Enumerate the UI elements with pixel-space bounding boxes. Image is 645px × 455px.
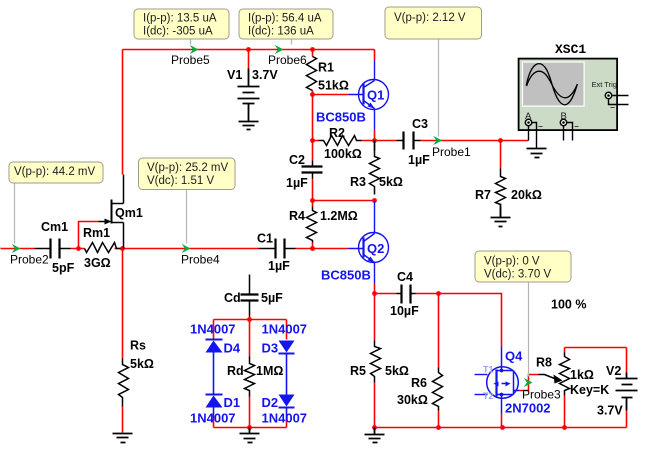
resistor Rd bbox=[245, 357, 255, 397]
node junction R7 top bbox=[498, 138, 503, 143]
wire Cd to diode rect bbox=[249, 317, 251, 320]
annotation box Probe5 current bbox=[134, 9, 229, 39]
svg-text:C2: C2 bbox=[289, 153, 305, 167]
svg-text:V1: V1 bbox=[227, 68, 242, 82]
svg-text:V(p-p): 44.2 mV: V(p-p): 44.2 mV bbox=[14, 166, 95, 178]
annotation stem Probe2 bbox=[14, 183, 16, 244]
capacitor Cd bbox=[241, 275, 259, 317]
svg-text:V2: V2 bbox=[606, 364, 621, 378]
svg-text:V(dc): 3.70 V: V(dc): 3.70 V bbox=[484, 269, 551, 281]
ground R7 bbox=[491, 207, 511, 227]
wire C3 row bbox=[375, 140, 529, 142]
node junction R4 top bbox=[310, 198, 315, 203]
ground scope A bbox=[527, 149, 547, 158]
capacitor C3 bbox=[397, 132, 421, 150]
svg-text:Probe5: Probe5 bbox=[171, 53, 210, 67]
label D1 model bbox=[190, 411, 236, 426]
label D4 model bbox=[190, 322, 236, 337]
node junction C1-Q2 base bbox=[310, 246, 315, 251]
svg-text:Probe2: Probe2 bbox=[10, 253, 49, 267]
probe Probe5 bbox=[171, 45, 210, 67]
probe Probe4 bbox=[181, 244, 220, 267]
svg-text:V(p-p): 0 V: V(p-p): 0 V bbox=[484, 256, 540, 268]
node junction Rm1-Qm1 bbox=[120, 246, 125, 251]
svg-text:C1: C1 bbox=[257, 232, 273, 246]
potentiometer R8 wiper arrow bbox=[539, 375, 563, 384]
wire R5 column bbox=[374, 294, 376, 428]
wire scope B stubs bbox=[564, 123, 573, 141]
label Rs value bbox=[130, 339, 154, 372]
svg-text:1N4007: 1N4007 bbox=[262, 322, 308, 337]
wire R7 column bbox=[500, 141, 502, 217]
wire R1 column bbox=[312, 50, 314, 161]
resistor R3 bbox=[370, 141, 380, 195]
capacitor C1 bbox=[259, 239, 296, 259]
svg-text:Q4: Q4 bbox=[505, 349, 523, 364]
svg-text:Q2: Q2 bbox=[367, 241, 384, 256]
resistor Rs bbox=[119, 359, 129, 407]
battery V1 bbox=[238, 69, 260, 122]
resistor R2 bbox=[319, 136, 362, 146]
node junction Q1 base bbox=[310, 92, 315, 97]
svg-text:Cm1: Cm1 bbox=[41, 220, 68, 234]
svg-text:V(p-p): 2.12 V: V(p-p): 2.12 V bbox=[394, 12, 466, 24]
annotation box Probe2 voltage bbox=[9, 162, 103, 183]
node junction R6 bottom bbox=[436, 425, 441, 430]
annotation box Probe1 voltage bbox=[385, 7, 482, 39]
svg-text:R4: R4 bbox=[289, 209, 305, 223]
annotation stem Probe5 bbox=[190, 39, 192, 45]
wire bottom rail bbox=[375, 427, 627, 429]
svg-text:5kΩ: 5kΩ bbox=[130, 357, 154, 371]
capacitor C4 bbox=[397, 285, 416, 304]
svg-text:R6: R6 bbox=[411, 376, 427, 390]
svg-text:D4: D4 bbox=[224, 341, 241, 356]
svg-text:R2: R2 bbox=[329, 126, 345, 140]
label duty cycle 100 % bbox=[551, 298, 586, 312]
svg-text:T1: T1 bbox=[483, 365, 494, 375]
label D3 model bbox=[262, 322, 308, 337]
wire scope A to node bbox=[528, 126, 530, 141]
oscilloscope XSC1 body bbox=[519, 59, 618, 131]
transistor Q4 2N7002 bbox=[487, 347, 520, 414]
transistor Qm1 bbox=[99, 175, 124, 249]
svg-text:Probe4: Probe4 bbox=[181, 253, 220, 267]
label R8 value bbox=[536, 356, 609, 398]
svg-text:1N4007: 1N4007 bbox=[190, 411, 236, 426]
svg-text:Qm1: Qm1 bbox=[115, 206, 143, 220]
oscilloscope terminal B bbox=[560, 111, 578, 127]
label Q1 bbox=[367, 88, 384, 103]
label D4 bbox=[224, 341, 241, 356]
svg-text:C4: C4 bbox=[397, 270, 413, 284]
label V2 value bbox=[597, 364, 623, 418]
probe Probe2 bbox=[10, 244, 49, 267]
node junction R8 bottom bbox=[562, 425, 567, 430]
wire scope A hook bbox=[532, 123, 537, 149]
svg-text:20kΩ: 20kΩ bbox=[511, 188, 542, 202]
svg-text:B: B bbox=[561, 111, 567, 122]
svg-text:Q1: Q1 bbox=[367, 88, 384, 103]
svg-text:I(dc): 136 uA: I(dc): 136 uA bbox=[248, 26, 314, 38]
svg-text:V(dc): 1.51 V: V(dc): 1.51 V bbox=[147, 175, 214, 187]
label Q2 bbox=[367, 241, 384, 256]
svg-text:2N7002: 2N7002 bbox=[505, 401, 551, 416]
probe Probe6 bbox=[268, 45, 307, 67]
terminal T1 stub bbox=[475, 365, 494, 375]
diode D4 1N4007 bbox=[206, 340, 223, 395]
wire input row bbox=[1, 248, 349, 250]
svg-text:1µF: 1µF bbox=[286, 176, 308, 190]
resistor R4 bbox=[307, 207, 317, 243]
resistor Rm1 bbox=[85, 243, 121, 253]
label R6 value bbox=[397, 376, 428, 407]
diode D1 1N4007 bbox=[206, 395, 223, 419]
label R1 value bbox=[318, 61, 349, 93]
wire Q4 source bbox=[501, 414, 503, 428]
svg-text:1µF: 1µF bbox=[268, 259, 290, 273]
svg-text:30kΩ: 30kΩ bbox=[397, 393, 428, 407]
transistor Q1 BC850B bbox=[349, 61, 389, 130]
label C1 value bbox=[257, 232, 290, 274]
svg-text:5µF: 5µF bbox=[261, 291, 283, 305]
node junction R2 left bbox=[310, 138, 315, 143]
svg-text:100kΩ: 100kΩ bbox=[324, 147, 362, 161]
svg-text:Rm1: Rm1 bbox=[83, 226, 110, 240]
annotation stem Probe6 bbox=[291, 39, 293, 45]
svg-text:XSC1: XSC1 bbox=[555, 42, 586, 57]
svg-text:I(p-p): 56.4 uA: I(p-p): 56.4 uA bbox=[248, 13, 322, 25]
ground V1 bbox=[239, 122, 259, 130]
svg-text:5kΩ: 5kΩ bbox=[385, 364, 409, 378]
label C2 value bbox=[286, 153, 308, 190]
svg-text:5pF: 5pF bbox=[52, 261, 75, 275]
resistor R7 bbox=[496, 169, 506, 207]
transistor Q2 BC850B bbox=[349, 202, 389, 284]
potentiometer R8 bbox=[560, 353, 570, 396]
annotation stem Probe4 bbox=[186, 190, 188, 244]
wire Q1 base bbox=[313, 94, 349, 96]
label Qm1 bbox=[115, 206, 143, 220]
svg-text:T2: T2 bbox=[483, 391, 494, 401]
annotation stem Probe1 bbox=[438, 39, 440, 137]
svg-text:I(dc): -305 uA: I(dc): -305 uA bbox=[143, 26, 213, 38]
node junction Rd ground bbox=[247, 425, 252, 430]
wire interstage row bbox=[313, 200, 375, 202]
svg-text:Probe6: Probe6 bbox=[268, 53, 307, 67]
svg-text:R1: R1 bbox=[318, 61, 334, 75]
label D2 model bbox=[262, 411, 308, 426]
node junction V1-rail bbox=[246, 47, 251, 52]
label Q1 model BC850B bbox=[316, 110, 366, 125]
label Q4 bbox=[505, 349, 523, 364]
wire C2 R4 column bbox=[312, 179, 314, 249]
label Rm1 value bbox=[83, 226, 111, 270]
capacitor Cm1 bbox=[35, 239, 71, 259]
svg-text:C3: C3 bbox=[412, 117, 428, 131]
wire Q2 emitter node bbox=[374, 284, 376, 294]
svg-text:1N4007: 1N4007 bbox=[262, 411, 308, 426]
node junction Q1 emitter bbox=[372, 138, 377, 143]
wire Q1 emitter to node bbox=[374, 130, 376, 151]
svg-text:D1: D1 bbox=[224, 395, 241, 410]
wire R8 V2 loop bbox=[565, 348, 627, 428]
node junction Cm1-Rm1 bbox=[76, 246, 81, 251]
ground Rs bbox=[113, 434, 133, 443]
svg-text:Ext Trig: Ext Trig bbox=[592, 80, 617, 89]
wire diode rect bottom rail bbox=[214, 427, 287, 429]
wire C4 row to Q4 bbox=[375, 294, 502, 347]
svg-text:1kΩ: 1kΩ bbox=[570, 368, 594, 382]
wire diode left branch bbox=[213, 320, 215, 428]
svg-text:3.7V: 3.7V bbox=[252, 68, 278, 82]
wire diode right branch bbox=[286, 320, 288, 428]
svg-text:Probe3: Probe3 bbox=[522, 388, 561, 402]
wire R8 wiper to Q4 gate bbox=[520, 375, 539, 391]
svg-text:1.2MΩ: 1.2MΩ bbox=[320, 209, 358, 223]
wire scope Ext Trig stubs bbox=[609, 96, 629, 105]
label C3 value bbox=[408, 117, 430, 167]
svg-text:D2: D2 bbox=[262, 395, 279, 410]
svg-text:1µF: 1µF bbox=[408, 153, 430, 167]
label R2 value bbox=[324, 126, 362, 161]
diode D2 1N4007 bbox=[279, 395, 295, 419]
svg-text:D3: D3 bbox=[262, 341, 279, 356]
svg-text:10µF: 10µF bbox=[390, 304, 419, 318]
annotation box Probe6 current bbox=[239, 9, 333, 39]
oscilloscope XSC1 screen bbox=[522, 61, 585, 106]
node junction R3 bottom bbox=[372, 198, 377, 203]
node junction Q4 source bbox=[500, 425, 505, 430]
svg-text:3GΩ: 3GΩ bbox=[84, 256, 111, 270]
node junction R5 ground bbox=[372, 425, 377, 430]
oscilloscope terminal Ext Trig bbox=[592, 80, 617, 108]
probe Probe1 bbox=[432, 136, 471, 159]
probe Probe3 bbox=[522, 378, 561, 402]
svg-text:R5: R5 bbox=[350, 364, 366, 378]
label V1 value bbox=[227, 68, 278, 82]
svg-text:BC850B: BC850B bbox=[316, 110, 366, 125]
label Rd value bbox=[227, 364, 283, 378]
svg-text:Probe1: Probe1 bbox=[432, 145, 471, 159]
svg-text:1MΩ: 1MΩ bbox=[256, 364, 283, 378]
label R5 value bbox=[350, 364, 409, 378]
svg-text:R7: R7 bbox=[475, 188, 491, 202]
svg-text:3.7V: 3.7V bbox=[597, 404, 623, 418]
svg-text:Key=K: Key=K bbox=[570, 383, 609, 397]
label R3 value bbox=[350, 175, 403, 189]
battery V2 bbox=[616, 373, 638, 411]
wire diode rect top rail bbox=[214, 319, 287, 321]
svg-text:R3: R3 bbox=[350, 175, 366, 189]
label XSC1 bbox=[555, 42, 586, 57]
diode D3 1N4007 bbox=[279, 341, 295, 395]
label C4 value bbox=[390, 270, 419, 318]
node junction Cd-Rd bbox=[247, 317, 252, 322]
wire top rail VCC bbox=[123, 50, 375, 175]
node junction R1-rail bbox=[310, 47, 315, 52]
svg-text:Rs: Rs bbox=[130, 339, 146, 353]
svg-text:R8: R8 bbox=[536, 356, 552, 370]
wire Rs column bbox=[122, 249, 124, 433]
svg-text:Cd: Cd bbox=[224, 291, 241, 305]
svg-text:A: A bbox=[525, 111, 532, 122]
resistor R1 bbox=[307, 57, 317, 91]
svg-text:I(p-p): 13.5 uA: I(p-p): 13.5 uA bbox=[143, 13, 217, 25]
label D1 bbox=[224, 395, 241, 410]
annotation box Probe4 voltage bbox=[139, 158, 236, 190]
oscilloscope trace B bbox=[527, 71, 578, 98]
svg-text:100 %: 100 % bbox=[551, 298, 586, 312]
wire R2 row bbox=[313, 140, 375, 142]
node junction Q2 emitter C4 bbox=[372, 291, 377, 296]
wire Rd column bbox=[249, 320, 251, 428]
label D3 bbox=[262, 341, 279, 356]
svg-text:5kΩ: 5kΩ bbox=[379, 175, 403, 189]
wire V1 tap bbox=[248, 50, 250, 69]
label Q2 model BC850B bbox=[321, 268, 371, 283]
svg-text:51kΩ: 51kΩ bbox=[318, 79, 349, 93]
label Cm1 value bbox=[41, 220, 75, 275]
wire R6 column bbox=[438, 294, 440, 428]
capacitor C2 bbox=[302, 161, 323, 179]
svg-text:Rd: Rd bbox=[227, 364, 244, 378]
svg-text:BC850B: BC850B bbox=[321, 268, 371, 283]
oscilloscope terminal A bbox=[525, 111, 543, 127]
label Cd value bbox=[224, 291, 283, 305]
terminal T2 stub bbox=[475, 391, 494, 401]
oscilloscope trace A bbox=[526, 64, 577, 105]
label R4 value bbox=[289, 209, 358, 223]
label Q4 model 2N7002 bbox=[505, 401, 551, 416]
ground R5 bbox=[365, 428, 385, 443]
wire Qm1 gate branch bbox=[79, 222, 99, 249]
label R7 value bbox=[475, 188, 542, 202]
svg-text:V(p-p): 25.2 mV: V(p-p): 25.2 mV bbox=[147, 162, 228, 174]
ground diode bridge bbox=[240, 428, 260, 443]
resistor R6 bbox=[433, 368, 443, 411]
annotation stem Probe3 bbox=[528, 283, 530, 377]
svg-text:1N4007: 1N4007 bbox=[190, 322, 236, 337]
label D2 bbox=[262, 395, 279, 410]
resistor R5 bbox=[371, 341, 381, 383]
annotation box Probe3 voltage bbox=[475, 251, 571, 282]
node junction C4 right bbox=[436, 291, 441, 296]
wire Q1 collector bbox=[374, 50, 376, 61]
